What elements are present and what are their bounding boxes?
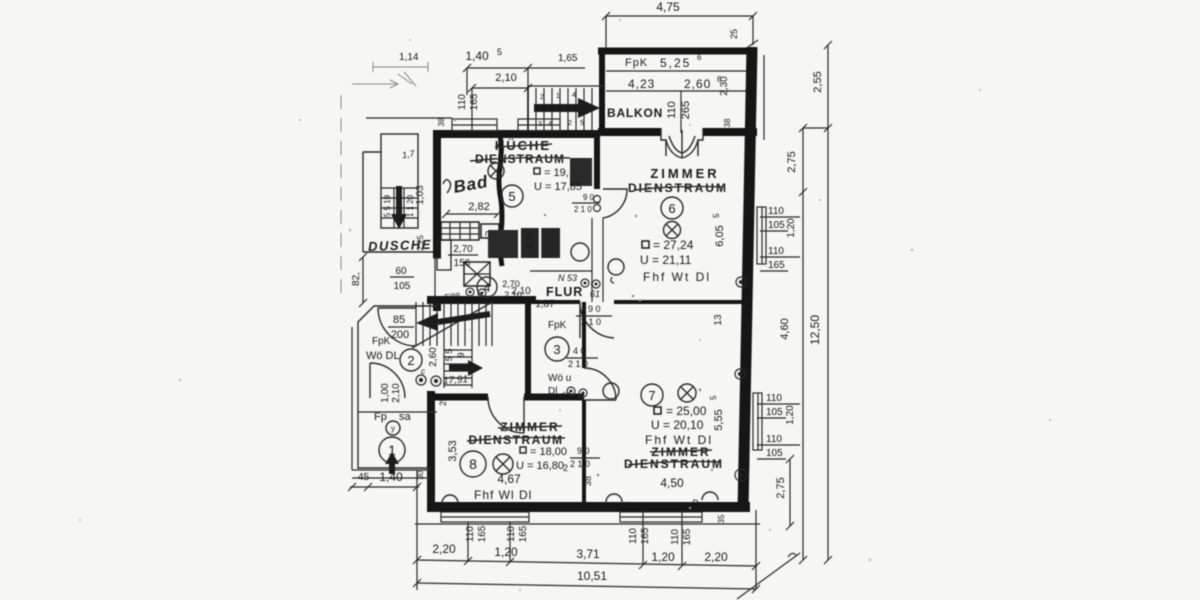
bath fixture dark block 2 (521, 228, 560, 258)
interior wall rooms6|7 left segment (536, 300, 580, 304)
room number 2 (400, 349, 422, 371)
svg-text:1,20: 1,20 (786, 218, 797, 238)
entrance sockets (416, 375, 426, 385)
scan noise speckles (79, 19, 1051, 591)
svg-text:Fhf Wt Dl: Fhf Wt Dl (643, 270, 711, 284)
svg-text:5: 5 (508, 189, 515, 204)
svg-text:6: 6 (668, 201, 675, 216)
svg-text:110: 110 (768, 206, 784, 217)
bath tub outline (437, 240, 451, 270)
vestibule door arc A (378, 308, 416, 346)
svg-text:110: 110 (506, 526, 517, 542)
right window dims group 2 (757, 404, 800, 459)
svg-text:2: 2 (563, 463, 568, 473)
svg-text:= 19,: = 19, (544, 167, 569, 179)
svg-text:165: 165 (640, 527, 651, 544)
svg-text:4: 4 (548, 121, 552, 128)
top wall kitchen section (433, 130, 600, 138)
svg-text:FpK: FpK (548, 320, 567, 331)
dimension faint top-left (373, 62, 428, 72)
room number 8 (460, 451, 486, 477)
svg-text:2,10: 2,10 (495, 72, 516, 84)
top wall room6 / balkon floor left segment (598, 128, 661, 136)
svg-text:165: 165 (768, 260, 785, 271)
svg-text:DUSCHE: DUSCHE (368, 237, 432, 254)
svg-text:D: D (625, 501, 632, 511)
svg-text:BALKON: BALKON (607, 106, 663, 120)
svg-text:4,23: 4,23 (628, 77, 655, 91)
svg-text:= 18,00: = 18,00 (530, 446, 567, 458)
svg-text:165: 165 (682, 528, 693, 545)
svg-text:105: 105 (766, 448, 783, 459)
interior wall kitchen|room6 upper (thick) (594, 134, 600, 189)
svg-text:105: 105 (766, 407, 783, 418)
corridor lamp circles (571, 243, 589, 261)
lower flight treads (444, 346, 472, 388)
svg-text:1,03: 1,03 (415, 185, 426, 205)
svg-text:30: 30 (416, 470, 425, 479)
svg-text:9 0: 9 0 (583, 193, 595, 202)
svg-text:38: 38 (437, 117, 446, 126)
svg-text:156: 156 (454, 258, 471, 269)
entrance arrow up (389, 464, 395, 474)
corridor door to room7 swing (584, 368, 616, 400)
right lower 2,75 chain (789, 459, 791, 526)
bath small sockets (466, 288, 474, 296)
bottom outer wall (427, 502, 750, 512)
extension lines top (467, 68, 528, 131)
room7 values (654, 407, 661, 414)
svg-text:2,75: 2,75 (775, 477, 787, 498)
right outer chain 12,50 / 2,55 (827, 45, 829, 560)
svg-text:5: 5 (709, 395, 718, 400)
room8 door leaf and swing (488, 397, 524, 433)
svg-text:2: 2 (540, 94, 544, 101)
svg-text:60: 60 (395, 266, 407, 277)
bath fixture basin n (481, 224, 499, 238)
scan artifact faint arrows top-left (352, 80, 398, 88)
svg-text:61: 61 (590, 289, 600, 299)
svg-text:105: 105 (768, 220, 785, 231)
right wall outer window frame lower (753, 393, 762, 450)
svg-text:9 0: 9 0 (588, 304, 601, 314)
svg-text:165: 165 (469, 93, 480, 110)
svg-text:U = 21,11: U = 21,11 (640, 253, 692, 267)
svg-text:5,55: 5,55 (713, 409, 725, 430)
svg-text:38: 38 (583, 476, 593, 486)
svg-text:sa: sa (399, 411, 412, 423)
svg-text:2,10: 2,10 (511, 286, 531, 297)
svg-text:FLUR: FLUR (546, 285, 583, 299)
bath partition plumbing wall (499, 134, 502, 266)
svg-text:105: 105 (394, 281, 411, 292)
svg-text:U = 17,85: U = 17,85 (534, 181, 582, 193)
svg-text:2,20: 2,20 (704, 550, 728, 564)
balkon interior line 2 (606, 90, 747, 92)
svg-text:10,51: 10,51 (577, 569, 607, 583)
svg-text:4 0: 4 0 (573, 346, 586, 356)
lower flight thick arrow (449, 365, 468, 372)
svg-text:5: 5 (580, 120, 584, 127)
svg-text:1,20: 1,20 (494, 545, 518, 559)
dimension 4,75 top (606, 16, 753, 48)
bottom chain line 2 total 10,51 (417, 583, 756, 589)
svg-text:6,05: 6,05 (714, 225, 726, 246)
svg-text:110: 110 (768, 246, 784, 257)
right inner chain (803, 128, 828, 560)
door roller marks bottom wall (606, 494, 622, 502)
bottom window sill right (620, 512, 702, 522)
svg-text:ZIMMER: ZIMMER (650, 166, 719, 181)
svg-text:3,71: 3,71 (576, 547, 600, 561)
window sill top wall B (518, 119, 560, 131)
svg-text:85: 85 (393, 314, 405, 326)
svg-text:3,53: 3,53 (447, 440, 459, 461)
room number 3 (545, 337, 569, 361)
room6 lamp (664, 222, 681, 239)
right wall outer window frame upper (757, 207, 766, 264)
stairhall right thick wall (525, 300, 531, 397)
bath fixture dark block room6 side (570, 158, 592, 186)
svg-text:110: 110 (766, 434, 782, 445)
svg-text:5 5 19: 5 5 19 (383, 194, 392, 217)
interior wall corridor|room7 vertical upper (582, 302, 586, 368)
svg-text:4,50: 4,50 (660, 476, 684, 490)
svg-text:2,75: 2,75 (786, 151, 798, 172)
svg-text:E88: E88 (444, 291, 461, 303)
svg-text:17,91: 17,91 (443, 374, 469, 387)
svg-text:Fp: Fp (374, 411, 387, 423)
annex top line extension (366, 117, 452, 119)
svg-text:Fhf Wl Dl: Fhf Wl Dl (474, 488, 532, 502)
annex stair treads (381, 188, 418, 228)
main staircase diagonal (412, 301, 494, 348)
svg-text:2 1 0: 2 1 0 (574, 205, 592, 214)
right window dims group 1 (760, 217, 800, 271)
room7 lamp (678, 384, 696, 402)
bath fixture dark block 1 (488, 230, 518, 258)
balkon parapet left wall (599, 48, 605, 133)
svg-text:DIENSTRAUM: DIENSTRAUM (628, 181, 728, 195)
kitchen area values (534, 168, 540, 174)
annex outline box (381, 134, 418, 228)
svg-text:2,10: 2,10 (391, 383, 402, 403)
interior wall rooms6|7 right segment (614, 300, 746, 304)
svg-text:1,00: 1,00 (380, 383, 391, 403)
svg-text:110: 110 (628, 528, 639, 544)
svg-text:4,67: 4,67 (497, 472, 521, 486)
bottom extension verticals (417, 470, 756, 590)
svg-text:U = 20,10: U = 20,10 (651, 418, 704, 432)
svg-text:2,30: 2,30 (719, 76, 730, 96)
balkon center marker line (680, 91, 682, 133)
room8 top wall left segment (427, 394, 488, 401)
interior wall corridor|room7 vertical lower (582, 400, 586, 507)
svg-text:FpK: FpK (372, 336, 391, 347)
svg-text:25: 25 (438, 396, 448, 406)
svg-text:1,87: 1,87 (535, 299, 555, 310)
room number 4 (477, 277, 497, 297)
svg-text:1,40: 1,40 (465, 49, 489, 63)
svg-text:6: 6 (697, 53, 702, 62)
interior wall corridor|room6 thin double (592, 218, 603, 302)
svg-text:7: 7 (648, 388, 655, 403)
svg-text:110: 110 (465, 526, 476, 542)
svg-text:45: 45 (358, 472, 370, 483)
small circle y (386, 421, 400, 435)
svg-text:12,50: 12,50 (808, 315, 822, 345)
top staircase thick arrow (534, 104, 578, 112)
door stop right wall (735, 369, 745, 379)
svg-text:110: 110 (457, 94, 468, 110)
vestibule outline (358, 306, 437, 468)
svg-text:2,55: 2,55 (812, 71, 824, 92)
bottom outer ground line (415, 523, 760, 525)
svg-text:265: 265 (680, 101, 692, 119)
svg-text:2,60: 2,60 (428, 347, 439, 367)
svg-text:y: y (391, 424, 395, 433)
svg-text:82,: 82, (351, 272, 362, 286)
svg-text:D: D (692, 498, 699, 508)
svg-text:35: 35 (717, 514, 726, 523)
svg-text:1,20: 1,20 (785, 405, 796, 425)
bottom window sill left (441, 512, 529, 522)
dimension 1,40 top (467, 67, 585, 69)
svg-text:25: 25 (729, 29, 739, 39)
kitchen lamp symbol (488, 163, 504, 179)
right outer wall (slightly skewed) (743, 47, 752, 510)
svg-text:FpK: FpK (625, 57, 648, 69)
svg-text:c: c (421, 367, 425, 376)
porch steps bottom left (352, 327, 430, 478)
svg-text:2,60: 2,60 (684, 77, 711, 91)
svg-text:3: 3 (553, 342, 560, 357)
svg-text:5: 5 (497, 47, 502, 57)
vestibule inner line (358, 411, 437, 413)
bath top fixture washer (441, 222, 479, 240)
svg-text:165: 165 (477, 525, 488, 542)
svg-text:165: 165 (518, 525, 529, 542)
svg-text:1: 1 (556, 93, 560, 100)
svg-text:110: 110 (670, 529, 681, 545)
svg-text:38: 38 (723, 118, 732, 127)
svg-text:2,82: 2,82 (468, 201, 489, 213)
svg-text:8: 8 (469, 456, 477, 472)
svg-text:= 27,24: = 27,24 (653, 238, 694, 252)
svg-text:4: 4 (484, 281, 491, 295)
svg-text:2,20: 2,20 (432, 542, 456, 556)
room6 door leaf and swing (603, 189, 627, 218)
bottom chain line 1 (417, 560, 756, 566)
svg-text:2: 2 (568, 120, 572, 127)
window sill top wall A (452, 119, 497, 131)
room8 top wall right segment (524, 394, 584, 401)
room8 values (520, 447, 526, 453)
left outer wall lower (427, 391, 435, 507)
svg-text:1 1 20: 1 1 20 (406, 194, 415, 217)
svg-text:200: 200 (391, 329, 409, 341)
room number 1 (379, 437, 405, 463)
svg-text:Dl: Dl (548, 386, 557, 397)
svg-text:2 1 0: 2 1 0 (570, 459, 590, 469)
room number 7 (641, 384, 663, 406)
room number 6 (661, 197, 683, 219)
dimension 2,10 top (472, 87, 528, 89)
annex outer left boundary (363, 152, 433, 252)
room6 values (642, 241, 649, 248)
svg-text:4: 4 (572, 92, 576, 99)
room number 5 (501, 185, 523, 207)
svg-text:2: 2 (407, 353, 414, 368)
svg-text:5 5: 5 5 (444, 349, 454, 362)
svg-text:110: 110 (766, 393, 782, 404)
svg-text:1,36: 1,36 (525, 232, 534, 248)
right wall outer line balkon (763, 55, 765, 140)
bath bottom thick wall (427, 296, 536, 304)
svg-text:9: 9 (456, 352, 466, 357)
main staircase thick arrow (438, 314, 490, 322)
svg-text:1,65: 1,65 (558, 53, 578, 64)
room8 lamp (493, 454, 513, 474)
svg-text:N 53: N 53 (558, 273, 577, 283)
left outer wall upper (433, 130, 441, 258)
flur top line (bath bottom thin) (530, 270, 592, 272)
svg-text:38: 38 (740, 483, 750, 493)
svg-text:1,20: 1,20 (651, 550, 675, 564)
svg-text:Wö DL: Wö DL (366, 350, 400, 362)
svg-text:110: 110 (666, 101, 678, 119)
svg-text:Wö u: Wö u (548, 373, 571, 384)
svg-text:4,75: 4,75 (656, 0, 680, 14)
scan artifact faint left line (340, 95, 342, 300)
svg-text:3: 3 (538, 121, 542, 128)
door knob circles room6 door (594, 196, 601, 203)
balkon parapet top wall (598, 48, 757, 55)
main staircase treads (416, 302, 492, 346)
svg-text:2 1 0: 2 1 0 (581, 317, 601, 327)
svg-text:13: 13 (713, 314, 724, 326)
svg-text:= 25,00: = 25,00 (666, 404, 707, 418)
annex stair arrow down (396, 186, 402, 214)
room7 door swing at wall 6|7 (580, 302, 614, 338)
svg-text:5,25: 5,25 (660, 56, 691, 70)
svg-text:4,60: 4,60 (779, 318, 791, 339)
bath fixture lower hatched (464, 262, 490, 286)
balkon door stepped jambs and sail swing (661, 128, 703, 156)
svg-text:2 1 0: 2 1 0 (568, 359, 588, 369)
svg-text:U = 16,80: U = 16,80 (516, 460, 564, 472)
svg-text:5: 5 (712, 213, 721, 218)
vestibule door arc B entrance (370, 363, 405, 398)
svg-text:1,14: 1,14 (399, 52, 419, 63)
svg-text:2,70: 2,70 (453, 244, 473, 255)
balkon interior line 1 (606, 70, 747, 72)
svg-text:9 0: 9 0 (577, 446, 590, 456)
top wall room6 / balkon floor right segment (703, 128, 757, 136)
top staircase block (528, 86, 604, 131)
diagonal break line bottom right (737, 553, 800, 599)
